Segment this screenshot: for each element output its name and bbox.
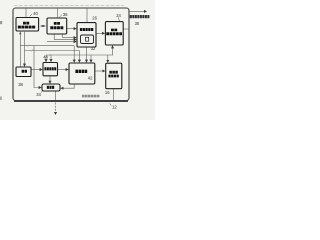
svg-text:40: 40	[33, 11, 38, 16]
svg-text:30: 30	[135, 21, 140, 26]
svg-text:12: 12	[112, 104, 117, 109]
svg-text:26: 26	[92, 16, 97, 21]
svg-text:24: 24	[116, 13, 121, 18]
svg-text:42: 42	[88, 76, 93, 81]
svg-text:34: 34	[36, 92, 41, 97]
svg-text:44: 44	[43, 55, 48, 60]
svg-text:16: 16	[105, 90, 110, 95]
svg-text:32: 32	[91, 46, 96, 51]
svg-text:36: 36	[63, 12, 68, 17]
svg-text:38: 38	[18, 82, 23, 87]
